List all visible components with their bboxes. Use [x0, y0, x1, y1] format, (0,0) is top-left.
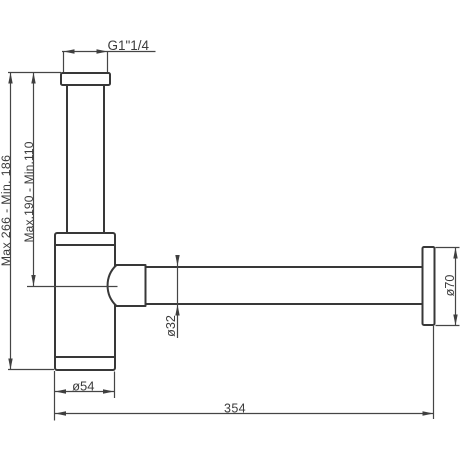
- svg-text:ø70: ø70: [443, 275, 457, 297]
- svg-text:Max 266 - Min. 186: Max 266 - Min. 186: [0, 155, 13, 267]
- svg-text:G1"1/4: G1"1/4: [108, 38, 150, 53]
- svg-text:ø54: ø54: [72, 378, 94, 393]
- svg-text:ø32: ø32: [164, 315, 178, 337]
- svg-text:354: 354: [224, 401, 246, 415]
- svg-text:Max.190 - Min.110: Max.190 - Min.110: [22, 141, 36, 242]
